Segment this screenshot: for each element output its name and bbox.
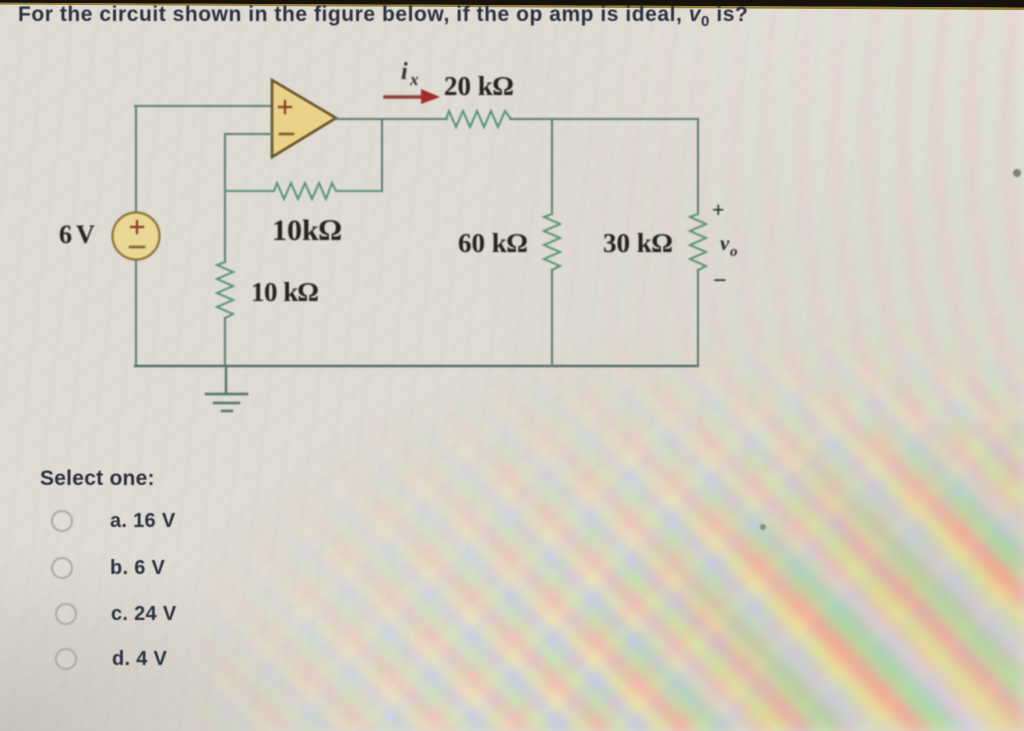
resistor R1 10kΩ feedback (horizontal) <box>225 183 382 199</box>
label + vo - output polarity <box>712 197 738 294</box>
resistor R5 30 kΩ (vertical, output) <box>690 214 706 270</box>
wire: left rail top segment from top-left corner to source <box>135 106 137 213</box>
wire: 20k resistor to right rail <box>510 118 698 120</box>
wire: bottom ground rail <box>135 365 698 367</box>
wire: feedback up to output node <box>381 119 383 191</box>
svg-text:v: v <box>720 231 730 255</box>
svg-text:−: − <box>713 268 727 294</box>
wire: 60k branch vertical top <box>551 119 553 214</box>
svg-text:20 kΩ: 20 kΩ <box>444 71 514 101</box>
wire: inverting node down to resistor R2 <box>224 191 226 262</box>
wire: 30k branch vertical bottom <box>697 270 699 366</box>
radio option d <box>55 648 77 670</box>
wire: 30k branch vertical top <box>697 119 699 214</box>
radio option c <box>55 603 77 625</box>
photo smudge dot center <box>760 524 766 530</box>
voltage source V1 6V <box>113 213 160 260</box>
wire: 60k branch vertical bottom <box>551 270 553 366</box>
wire: left rail bottom segment from source to bottom rail <box>135 260 137 366</box>
radio option b <box>51 557 73 579</box>
photo smudge dot right <box>1013 169 1021 177</box>
svg-text:10 kΩ: 10 kΩ <box>251 277 318 307</box>
wire: R2 to bottom rail <box>224 318 226 366</box>
svg-text:+: + <box>712 197 725 222</box>
svg-text:30 kΩ: 30 kΩ <box>603 228 673 258</box>
resistor R3 20 kΩ (horizontal, redrawn over wire) <box>446 111 511 127</box>
select one <box>40 467 155 491</box>
resistor R4 60 kΩ (vertical) <box>544 214 560 270</box>
wire: top wire to op-amp + input <box>135 105 273 107</box>
resistor R2 10 kΩ (vertical to ground) <box>217 262 233 318</box>
wire: inverting input to left then down <box>225 134 272 191</box>
svg-text:x: x <box>409 70 419 89</box>
top black screen-edge bar <box>0 0 1024 14</box>
ground <box>206 366 247 411</box>
current arrow ix <box>385 89 440 104</box>
radio option a <box>51 510 73 532</box>
svg-text:10kΩ: 10kΩ <box>272 214 342 247</box>
question title <box>18 3 1018 30</box>
op-amp U1 <box>272 80 336 157</box>
svg-text:o: o <box>730 244 738 260</box>
wire: op-amp output to 20k resistor <box>336 118 447 120</box>
svg-text:i: i <box>401 59 408 85</box>
svg-text:60 kΩ: 60 kΩ <box>458 228 528 258</box>
svg-text:6 V: 6 V <box>59 220 95 249</box>
